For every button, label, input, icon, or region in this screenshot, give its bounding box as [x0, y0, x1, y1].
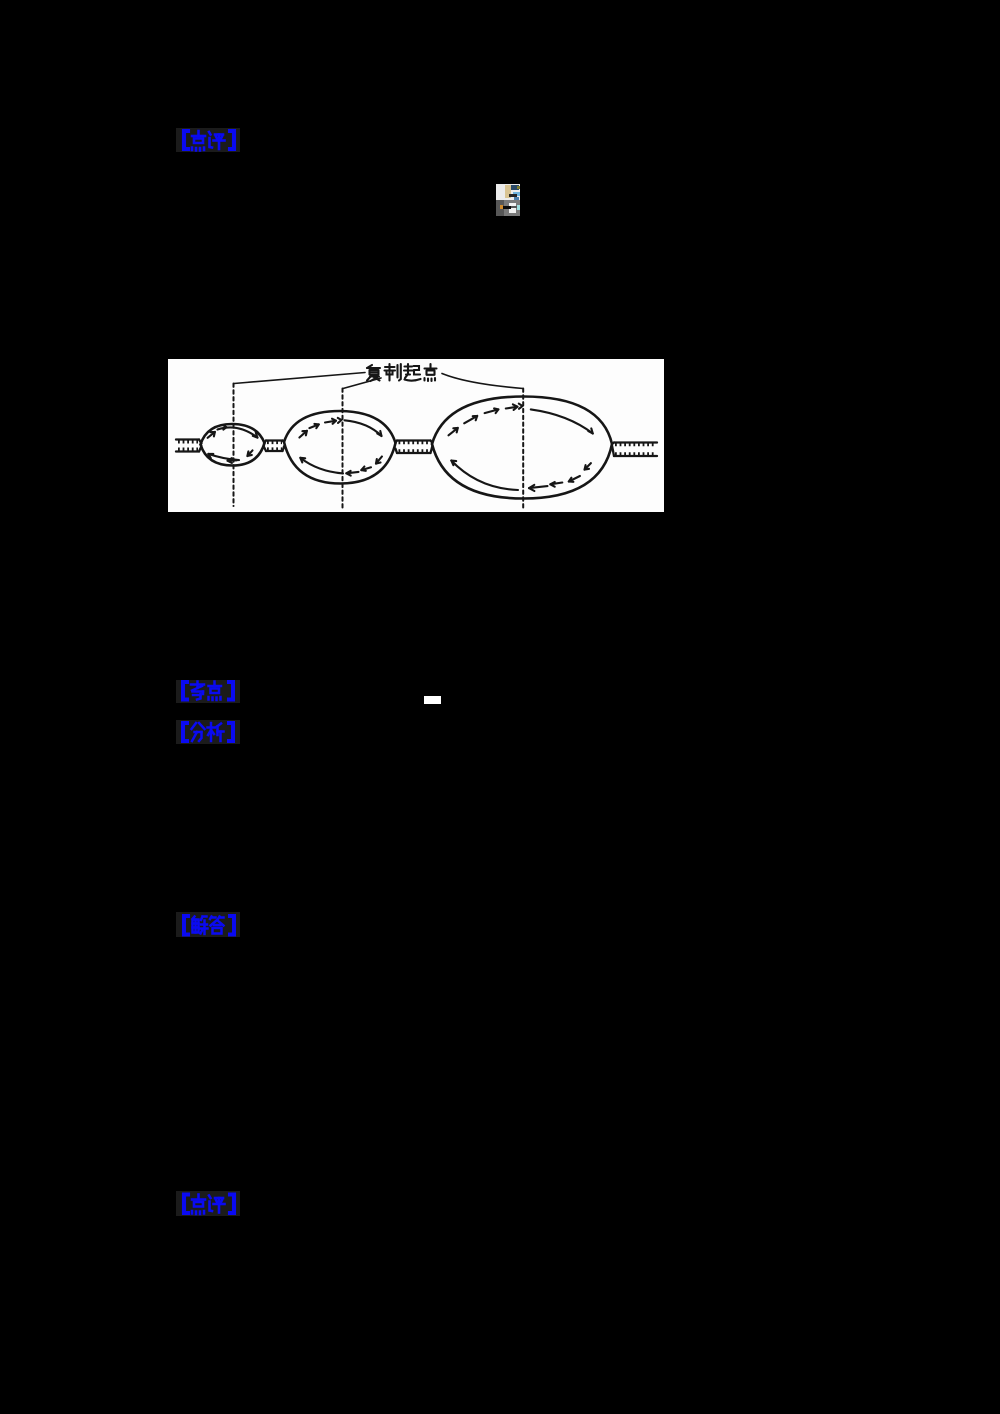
点: [197, 1195, 200, 1200]
点: [213, 682, 216, 687]
析: [210, 723, 213, 741]
marker 分析: [176, 720, 240, 744]
pointer line to bubble3 origin: [442, 374, 523, 389]
label 复制起点: [367, 364, 437, 381]
ladder between bubble1 and bubble2: [264, 441, 284, 452]
bubble1 arrows: [208, 425, 258, 463]
答: [210, 917, 224, 920]
left parental strand ladder: [176, 440, 202, 452]
replication bubble 3: [432, 397, 612, 499]
评: [209, 132, 211, 135]
white dash: [424, 696, 441, 705]
bubble2 arrows: [299, 418, 382, 476]
right parental strand ladder: [612, 443, 657, 457]
评: [209, 1196, 211, 1199]
bubble3 arrows: [449, 404, 593, 491]
marker 点评 1 (blue label box): [176, 128, 240, 152]
起: [407, 364, 409, 371]
复: [367, 365, 372, 368]
marker 考点: [176, 680, 240, 703]
考: [196, 682, 199, 689]
分: [192, 723, 197, 729]
ladder between bubble2 and bubble3: [395, 441, 432, 454]
diagram: DNA replication bubbles: [168, 359, 664, 512]
inline equation icon: [496, 184, 520, 200]
点: [429, 364, 431, 369]
replication bubble 1: [201, 424, 265, 466]
dashed origin line 1: [233, 384, 235, 507]
解: [193, 917, 195, 920]
marker 解答: [176, 912, 240, 937]
点: [197, 131, 200, 136]
pointer line to bubble2 origin: [343, 378, 381, 389]
dashed origin line 3: [522, 389, 524, 510]
pointer line to bubble1 origin: [234, 373, 365, 384]
replication bubble 2: [284, 411, 396, 484]
dashed origin line 2: [342, 389, 344, 510]
marker 点评 2: [176, 1191, 240, 1216]
制: [388, 364, 390, 375]
